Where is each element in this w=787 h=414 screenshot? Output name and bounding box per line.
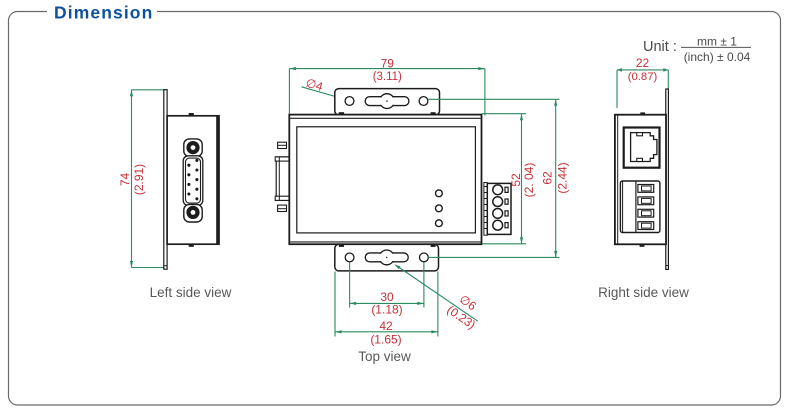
- top view body seam top: [290, 117, 480, 119]
- dim 62 line: [555, 99, 557, 257]
- right terminal block divider: [635, 181, 637, 233]
- dim 52 extension top: [482, 113, 526, 115]
- right view bottom nub: [640, 245, 645, 247]
- DB9 pins column right (5 pins): [195, 159, 198, 201]
- svg-text:(2.91): (2.91): [132, 164, 146, 195]
- dim 62 extension bottom: [428, 256, 559, 258]
- DB9 top screw hole: [191, 145, 196, 150]
- dim 22 line: [617, 69, 668, 71]
- dim 42 line: [335, 331, 438, 333]
- svg-text:42: 42: [379, 319, 393, 333]
- right view body: [615, 115, 666, 245]
- DB9 top screw ring: [186, 141, 199, 154]
- dia6 leader arrow: [394, 264, 400, 269]
- svg-text:(1.18): (1.18): [371, 303, 402, 317]
- svg-text:(0.87): (0.87): [628, 71, 658, 83]
- svg-text:62: 62: [540, 171, 554, 185]
- RJ45 tab bottom: [637, 158, 643, 161]
- top view body outer: [289, 115, 481, 245]
- terminal block strip (top view): [484, 183, 487, 236]
- terminal cell 4: [638, 222, 654, 230]
- DB9 pins column left (4 pins): [187, 164, 190, 196]
- dim 79 extension right: [484, 69, 486, 116]
- DB9 connector shell: [183, 156, 203, 206]
- dim 22 extension left: [616, 70, 618, 108]
- svg-text:52: 52: [509, 173, 523, 187]
- terminal block slots: [505, 187, 508, 192]
- terminal block body (top view): [487, 183, 511, 234]
- svg-text:Left side view: Left side view: [150, 285, 232, 300]
- RJ45 jack cavity: [631, 133, 657, 162]
- svg-text:22: 22: [636, 56, 650, 70]
- terminal block screws: [493, 185, 503, 195]
- svg-text:74: 74: [118, 173, 132, 187]
- dim 74 arrow up: [130, 90, 133, 97]
- svg-text:mm ± 1: mm ± 1: [697, 35, 737, 49]
- bottom tab hole left: [345, 253, 354, 262]
- top tab hole right: [419, 97, 428, 106]
- unit fraction bar: [681, 46, 751, 48]
- svg-text:(inch) ± 0.04: (inch) ± 0.04: [684, 50, 751, 64]
- LED 1: [436, 190, 443, 197]
- title gap: [47, 2, 157, 22]
- right terminal block left inner line: [622, 181, 624, 232]
- bottom tab keyhole slot: [365, 250, 408, 265]
- dim 30 extension left: [349, 262, 351, 307]
- svg-text:(3.11): (3.11): [373, 71, 402, 83]
- dim 74 extension line bottom: [132, 267, 164, 269]
- terminal cell 1: [638, 185, 654, 193]
- DB9 top profile shell: [276, 157, 290, 201]
- LED 2: [436, 205, 443, 212]
- DB9 bottom screw ring: [186, 206, 199, 219]
- top view inner panel: [297, 127, 476, 233]
- right view top nub: [640, 112, 645, 114]
- svg-text:(1.65): (1.65): [370, 333, 401, 347]
- svg-text:(2.44): (2.44): [556, 162, 570, 193]
- left view flange plate: [164, 90, 167, 270]
- terminal cell 3: [638, 209, 654, 217]
- top tab nub right: [431, 112, 436, 114]
- dim 79 arrow left: [289, 67, 296, 70]
- dim 62 extension top: [428, 98, 559, 100]
- dim 42 extension left: [334, 272, 336, 337]
- right view flange plate: [666, 89, 669, 269]
- right terminal block outer: [620, 181, 660, 233]
- bottom tab nub left: [339, 245, 344, 247]
- dim 22 extension right: [667, 70, 669, 96]
- dia4 leader line: [302, 87, 345, 99]
- RJ45 jack outer: [624, 128, 660, 168]
- dim 74 arrow down: [130, 261, 133, 268]
- bottom tab nub right: [431, 245, 436, 247]
- terminal cell 2: [638, 197, 654, 205]
- dim 52 extension bottom: [482, 243, 526, 245]
- bottom tab hole right: [420, 253, 429, 262]
- svg-text:79: 79: [381, 57, 395, 71]
- svg-text:Unit :: Unit :: [643, 39, 677, 55]
- svg-text:Right side view: Right side view: [598, 285, 689, 300]
- top tab keyhole slot: [365, 94, 409, 109]
- DB9 top profile jack screw bottom: [278, 205, 287, 211]
- terminal strip ticks: [484, 187, 487, 229]
- top tab hole left: [345, 97, 354, 106]
- dim 30 line: [350, 302, 424, 304]
- left view body: [167, 116, 219, 244]
- svg-text:(2. 04): (2. 04): [522, 163, 536, 198]
- RJ45 tab top: [637, 133, 643, 136]
- LED 3: [436, 220, 443, 227]
- top view body seam bottom: [290, 241, 480, 243]
- svg-text:Top view: Top view: [358, 349, 411, 364]
- dim 79 extension left: [288, 69, 290, 114]
- left view body right thick edge: [216, 117, 219, 244]
- right view body left inner line: [617, 115, 619, 244]
- bottom mounting tab: [335, 244, 439, 271]
- svg-text:Dimension: Dimension: [54, 3, 153, 23]
- dim 74 line: [131, 90, 133, 268]
- DB9 bottom screw hole: [191, 210, 196, 215]
- dim 79 arrow right: [478, 67, 485, 70]
- DB9 connector bottom lobe: [184, 204, 202, 222]
- dim 79 line: [289, 68, 485, 70]
- dia4 leader arrow: [340, 96, 347, 99]
- top tab nub left: [339, 112, 344, 114]
- dim 52 line: [521, 114, 523, 244]
- DB9 connector top lobe: [184, 139, 202, 157]
- dim 74 extension line top: [132, 89, 164, 91]
- top mounting tab: [335, 89, 440, 115]
- dia6 leader line: [397, 266, 478, 321]
- DB9 top profile jack screw top: [278, 142, 287, 148]
- dim 30 extension right: [423, 262, 425, 307]
- left view bottom nub: [189, 245, 194, 247]
- dim 42 extension right: [437, 272, 439, 337]
- DB9 shell inner outline: [186, 158, 201, 203]
- left view top nub: [189, 113, 194, 115]
